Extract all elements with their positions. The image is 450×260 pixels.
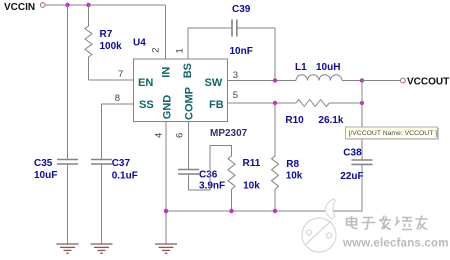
port VCCIN (4, 2, 45, 13)
svg-text:R8: R8 (286, 159, 299, 170)
svg-text:C36: C36 (199, 170, 218, 181)
wire C38 down to bottom rail (166, 164, 362, 211)
port VCCOUT (401, 77, 450, 88)
svg-text:[/VCCOUT Name: VCCOUT ]: [/VCCOUT Name: VCCOUT ] (349, 130, 438, 137)
子 (362, 218, 376, 230)
svg-text:4: 4 (154, 133, 165, 138)
junction at R7 branch (86, 3, 90, 7)
svg-text:C38: C38 (343, 148, 362, 159)
resistor R10 (285, 100, 343, 127)
svg-text:7: 7 (118, 69, 123, 80)
wire L1 to VCCOUT node (342, 80, 362, 82)
wire C35 branch down (67, 5, 69, 160)
wire R10 to VCCOUT column (330, 102, 363, 104)
wire C35 to ground (67, 164, 69, 244)
resistor R8 (272, 103, 303, 211)
svg-text:COMP: COMP (184, 87, 196, 120)
capacitor C38 (340, 148, 372, 183)
junction VCCOUT node (360, 78, 364, 82)
resistor R7 (85, 5, 122, 80)
svg-text:IN: IN (161, 67, 173, 78)
resistor R11 (228, 156, 261, 211)
op-amp U4 MP2307 IC body (133, 38, 248, 140)
svg-text:0.1uF: 0.1uF (112, 171, 138, 182)
svg-text:2: 2 (151, 48, 162, 53)
svg-text:EN: EN (138, 77, 153, 89)
电 (347, 216, 358, 229)
wire IN pin 2 (165, 5, 167, 59)
wire VCCIN top rail (45, 4, 165, 6)
svg-text:5: 5 (233, 90, 238, 101)
svg-text:10uF: 10uF (34, 170, 57, 181)
svg-text:MP2307: MP2307 (210, 128, 248, 139)
wire SW pin 3 (228, 80, 297, 82)
ground below C35 (57, 244, 79, 253)
capacitor C37 (91, 158, 138, 182)
svg-text:10uH: 10uH (316, 62, 340, 73)
svg-text:6: 6 (175, 133, 186, 138)
svg-text:FB: FB (209, 99, 224, 111)
wire EN (89, 79, 134, 81)
junction SW node (273, 78, 277, 82)
wire C37 to ground (101, 164, 103, 244)
svg-text:SS: SS (139, 99, 154, 111)
svg-text:22uF: 22uF (340, 171, 363, 182)
svg-text:1: 1 (175, 48, 186, 53)
svg-text:10k: 10k (243, 181, 260, 192)
ground below IC pin 4 (155, 244, 177, 253)
svg-text:100k: 100k (100, 41, 123, 52)
svg-text:8: 8 (115, 93, 120, 104)
wire to VCCOUT port (362, 80, 401, 82)
wire VCCOUT column down to C38 (361, 81, 363, 161)
友 (416, 216, 428, 230)
svg-text:C37: C37 (112, 158, 131, 169)
junction FB node (273, 101, 277, 105)
capacitor C35 (34, 158, 78, 181)
ground below C37 (91, 244, 113, 253)
svg-text:BS: BS (182, 63, 194, 78)
junction GND rail (164, 209, 168, 213)
svg-text:www.elecfans.com: www.elecfans.com (342, 238, 449, 250)
junction R8 bottom (273, 209, 277, 213)
wire COMP pin 6 down to C36 (188, 122, 190, 170)
wire C36 bottom to R11 top (189, 146, 232, 191)
svg-text:GND: GND (162, 95, 174, 120)
capacitor C36 (178, 170, 225, 192)
junction at C35 branch (65, 3, 69, 7)
svg-text:3: 3 (233, 70, 238, 81)
capacitor C39 (230, 4, 253, 57)
wire SS (102, 104, 134, 160)
wire GND pin 4 down (165, 122, 167, 244)
svg-text:SW: SW (205, 77, 223, 89)
svg-text:VCCIN: VCCIN (4, 2, 35, 13)
svg-text:10k: 10k (286, 171, 303, 182)
wire BS pin 1 to C39 (188, 28, 232, 59)
junction R11 bottom (229, 209, 233, 213)
烧 (395, 217, 412, 230)
发 (379, 216, 391, 230)
wire FB pin 5 (228, 102, 297, 104)
svg-text:26.1k: 26.1k (318, 115, 343, 126)
svg-text:C39: C39 (232, 4, 251, 15)
svg-text:10nF: 10nF (230, 46, 253, 57)
svg-text:VCCOUT: VCCOUT (407, 77, 449, 88)
svg-text:R7: R7 (100, 29, 113, 40)
svg-text:R10: R10 (285, 115, 304, 126)
svg-text:R11: R11 (243, 158, 261, 169)
watermark logo disc (302, 199, 336, 252)
svg-text:L1: L1 (295, 62, 307, 73)
inductor L1 (295, 62, 342, 81)
wire C39 to SW node (237, 28, 275, 81)
net label tooltip VCCOUT (346, 127, 439, 139)
svg-text:C35: C35 (34, 158, 53, 169)
junction R10 right (360, 101, 364, 105)
svg-text:U4: U4 (133, 38, 146, 49)
watermark chinese text 电子发烧友 (347, 216, 428, 230)
